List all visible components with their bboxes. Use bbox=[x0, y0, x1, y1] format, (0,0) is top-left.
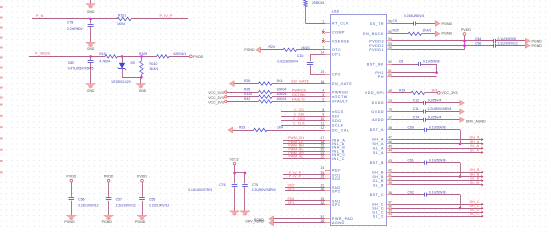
svg-text:C60: C60 bbox=[408, 126, 414, 130]
svg-text:34: 34 bbox=[388, 212, 392, 216]
svg-text:CP2: CP2 bbox=[332, 72, 341, 76]
svg-text:10K04: 10K04 bbox=[277, 88, 287, 92]
svg-text:49: 49 bbox=[388, 89, 392, 93]
svg-text:OTC: OTC bbox=[332, 48, 341, 52]
svg-text:PWRGD: PWRGD bbox=[332, 90, 349, 94]
svg-text:2.2U/100V/12: 2.2U/100V/12 bbox=[116, 204, 136, 208]
svg-text:VSENSE: VSENSE bbox=[332, 40, 350, 44]
svg-text:R23: R23 bbox=[239, 126, 245, 130]
svg-text:INL_C: INL_C bbox=[332, 157, 345, 161]
svg-text:C78: C78 bbox=[67, 21, 73, 25]
svg-text:PGND: PGND bbox=[254, 218, 264, 222]
svg-text:C80: C80 bbox=[68, 61, 74, 65]
svg-text:11: 11 bbox=[321, 122, 325, 126]
svg-text:0.1U/100V/8: 0.1U/100V/8 bbox=[498, 37, 516, 41]
svg-text:3K4: 3K4 bbox=[432, 88, 438, 92]
svg-text:C54: C54 bbox=[475, 37, 481, 41]
svg-text:1: 1 bbox=[322, 19, 324, 23]
svg-text:SL_C: SL_C bbox=[373, 214, 384, 218]
svg-text:P_N: P_N bbox=[36, 14, 44, 18]
svg-text:VCC_3V3: VCC_3V3 bbox=[208, 100, 224, 104]
svg-text:R42: R42 bbox=[244, 97, 250, 101]
svg-text:56: 56 bbox=[388, 20, 392, 24]
svg-text:15: 15 bbox=[321, 70, 325, 74]
svg-text:C8: C8 bbox=[399, 60, 403, 64]
svg-text:1K4: 1K4 bbox=[277, 126, 283, 130]
svg-text:U16: U16 bbox=[332, 10, 339, 14]
svg-text:38: 38 bbox=[388, 191, 392, 195]
svg-text:1K4/1: 1K4/1 bbox=[301, 46, 310, 50]
svg-text:GH_A: GH_A bbox=[470, 135, 480, 139]
svg-text:C75: C75 bbox=[252, 183, 258, 187]
svg-text:PGND: PGND bbox=[442, 22, 453, 26]
svg-text:VCC_3V3: VCC_3V3 bbox=[208, 96, 224, 100]
svg-text:PVDD: PVDD bbox=[137, 174, 147, 178]
svg-text:BST_A: BST_A bbox=[370, 128, 384, 132]
svg-text:SP2: SP2 bbox=[332, 189, 340, 193]
svg-text:VCC3: VCC3 bbox=[230, 158, 239, 162]
svg-text:C57: C57 bbox=[116, 198, 122, 202]
svg-text:43: 43 bbox=[388, 159, 392, 163]
svg-text:nFAULT: nFAULT bbox=[332, 100, 348, 104]
svg-text:48: 48 bbox=[388, 126, 392, 130]
svg-text:VCC_3V3: VCC_3V3 bbox=[442, 91, 458, 95]
svg-text:SP2: SP2 bbox=[287, 187, 294, 191]
svg-text:PWM_AL: PWM_AL bbox=[289, 155, 304, 159]
svg-text:47: 47 bbox=[388, 136, 392, 140]
svg-text:PGND: PGND bbox=[102, 220, 113, 224]
svg-text:C_CS: C_CS bbox=[294, 108, 304, 112]
svg-text:42: 42 bbox=[388, 168, 392, 172]
svg-text:62K04/1: 62K04/1 bbox=[174, 52, 187, 56]
svg-text:C_SDI: C_SDI bbox=[294, 112, 305, 116]
svg-text:D9: D9 bbox=[131, 61, 135, 65]
svg-text:nSCS: nSCS bbox=[332, 110, 344, 114]
svg-text:2.2U/50V/X5R/4: 2.2U/50V/X5R/4 bbox=[428, 107, 452, 111]
svg-text:SCLK: SCLK bbox=[332, 124, 344, 128]
svg-text:C56: C56 bbox=[475, 42, 481, 46]
svg-text:FAULTn: FAULTn bbox=[292, 98, 306, 102]
svg-text:GH_A: GH_A bbox=[372, 138, 384, 142]
svg-text:C12: C12 bbox=[413, 98, 419, 102]
svg-text:SL_A: SL_A bbox=[373, 151, 384, 155]
svg-text:R25: R25 bbox=[244, 88, 250, 92]
svg-text:24: 24 bbox=[321, 166, 325, 170]
svg-text:0.015U/50V/4: 0.015U/50V/4 bbox=[404, 14, 424, 18]
svg-text:PGND: PGND bbox=[64, 220, 75, 224]
svg-text:BST_BK: BST_BK bbox=[367, 62, 384, 66]
svg-text:R19: R19 bbox=[399, 88, 405, 92]
svg-text:P_VBUS: P_VBUS bbox=[35, 52, 50, 56]
svg-text:DC_CAL: DC_CAL bbox=[332, 128, 349, 132]
svg-text:SDO: SDO bbox=[332, 119, 341, 123]
svg-text:54: 54 bbox=[388, 37, 392, 41]
svg-text:AVDD: AVDD bbox=[372, 118, 384, 122]
svg-text:PVDD: PVDD bbox=[193, 55, 203, 59]
svg-text:R119: R119 bbox=[244, 92, 252, 96]
svg-text:C55: C55 bbox=[149, 198, 155, 202]
svg-text:C74: C74 bbox=[413, 115, 419, 119]
svg-text:SP1: SP1 bbox=[332, 203, 340, 207]
svg-text:R109: R109 bbox=[139, 52, 147, 56]
svg-text:1K4/1: 1K4/1 bbox=[423, 29, 432, 33]
svg-text:50: 50 bbox=[388, 73, 392, 77]
svg-text:1K4: 1K4 bbox=[277, 79, 283, 83]
svg-text:VESD03-02V: VESD03-02V bbox=[111, 80, 131, 84]
svg-text:R26: R26 bbox=[244, 79, 250, 83]
svg-text:12: 12 bbox=[321, 126, 325, 130]
svg-text:GH_B: GH_B bbox=[372, 170, 384, 174]
svg-text:PVDD1: PVDD1 bbox=[369, 48, 384, 52]
svg-text:PH: PH bbox=[378, 75, 384, 79]
svg-text:0.1U/50V/8: 0.1U/50V/8 bbox=[429, 159, 446, 163]
svg-text:44: 44 bbox=[388, 149, 392, 153]
svg-text:2.2U/100V/12: 2.2U/100V/12 bbox=[498, 42, 518, 46]
svg-text:nOCTW: nOCTW bbox=[332, 95, 348, 99]
svg-text:2.2U/100V/12: 2.2U/100V/12 bbox=[149, 204, 169, 208]
svg-text:C_CLK: C_CLK bbox=[293, 122, 305, 126]
svg-text:10K04: 10K04 bbox=[277, 92, 287, 96]
svg-text:14: 14 bbox=[321, 50, 325, 54]
svg-text:SL_B: SL_B bbox=[470, 181, 480, 185]
svg-text:0.1U/16V/X7R/4: 0.1U/16V/X7R/4 bbox=[188, 188, 212, 192]
svg-text:SDI: SDI bbox=[332, 115, 340, 119]
svg-text:PGND: PGND bbox=[532, 44, 543, 48]
svg-text:SL_C: SL_C bbox=[470, 212, 480, 216]
svg-text:PVDD3: PVDD3 bbox=[369, 39, 384, 43]
svg-text:CP1: CP1 bbox=[332, 53, 341, 57]
svg-text:SO2: SO2 bbox=[332, 177, 341, 181]
svg-text:13: 13 bbox=[388, 108, 392, 112]
svg-text:4.7K04: 4.7K04 bbox=[99, 60, 110, 64]
svg-text:PVDD: PVDD bbox=[461, 28, 471, 32]
svg-text:52: 52 bbox=[388, 60, 392, 64]
svg-text:0.022U/50V/4: 0.022U/50V/4 bbox=[278, 59, 298, 63]
svg-text:2.2U/100V/12: 2.2U/100V/12 bbox=[78, 204, 98, 208]
svg-text:PGND: PGND bbox=[135, 220, 146, 224]
svg-text:GND: GND bbox=[139, 89, 147, 93]
svg-text:PWRGD: PWRGD bbox=[292, 88, 307, 92]
svg-text:P_IV_P: P_IV_P bbox=[289, 175, 302, 179]
svg-text:0.1U/50V/8: 0.1U/50V/8 bbox=[429, 190, 446, 194]
svg-text:0.1U/50V/8: 0.1U/50V/8 bbox=[423, 60, 440, 64]
svg-text:55: 55 bbox=[388, 30, 392, 34]
svg-text:AGND: AGND bbox=[332, 221, 345, 225]
svg-text:COMP: COMP bbox=[332, 31, 345, 35]
svg-text:1U/25V/4: 1U/25V/4 bbox=[428, 98, 442, 102]
svg-text:PGND: PGND bbox=[244, 48, 255, 52]
svg-text:C11: C11 bbox=[413, 107, 419, 111]
svg-text:1K04: 1K04 bbox=[117, 22, 125, 26]
svg-text:SL_B: SL_B bbox=[373, 183, 384, 187]
svg-text:C61: C61 bbox=[408, 159, 414, 163]
svg-text:P_IV_P: P_IV_P bbox=[160, 14, 173, 18]
svg-text:29: 29 bbox=[388, 46, 392, 50]
svg-text:39: 39 bbox=[388, 181, 392, 185]
svg-text:10K04: 10K04 bbox=[277, 97, 287, 101]
svg-text:EN_GATE: EN_GATE bbox=[332, 82, 352, 86]
svg-text:23: 23 bbox=[388, 99, 392, 103]
svg-text:2.2U/50V/X5R/4: 2.2U/50V/X5R/4 bbox=[252, 188, 276, 192]
svg-text:R111: R111 bbox=[99, 52, 107, 56]
svg-text:6: 6 bbox=[322, 98, 324, 102]
svg-text:27: 27 bbox=[388, 116, 392, 120]
svg-text:SL_A: SL_A bbox=[470, 149, 480, 153]
svg-text:C10: C10 bbox=[297, 54, 303, 58]
svg-text:R110: R110 bbox=[150, 62, 158, 66]
svg-text:GND: GND bbox=[87, 47, 95, 51]
svg-text:C62: C62 bbox=[408, 190, 414, 194]
svg-text:0.47U/25V/X5R/5: 0.47U/25V/X5R/5 bbox=[68, 67, 94, 71]
svg-text:C9: C9 bbox=[393, 19, 397, 23]
svg-text:GND: GND bbox=[87, 10, 95, 14]
svg-text:3K4/1: 3K4/1 bbox=[150, 67, 159, 71]
svg-text:DRV_AGND: DRV_AGND bbox=[466, 119, 486, 123]
svg-text:205K4/1: 205K4/1 bbox=[312, 1, 325, 5]
svg-text:OCTWn: OCTWn bbox=[292, 93, 305, 97]
svg-text:9: 9 bbox=[322, 112, 324, 116]
svg-text:BST_C: BST_C bbox=[370, 193, 384, 197]
svg-text:RT_CLK: RT_CLK bbox=[332, 22, 349, 26]
svg-text:C76: C76 bbox=[219, 183, 225, 187]
svg-text:PGND: PGND bbox=[442, 32, 453, 36]
svg-text:PGND: PGND bbox=[532, 39, 543, 43]
svg-text:PVDD: PVDD bbox=[104, 174, 114, 178]
svg-text:VCC_3V3: VCC_3V3 bbox=[208, 91, 224, 95]
svg-text:R101: R101 bbox=[118, 14, 126, 18]
svg-text:R20: R20 bbox=[393, 29, 399, 33]
svg-text:2.2nF/50V: 2.2nF/50V bbox=[67, 27, 83, 31]
svg-text:PVDD: PVDD bbox=[66, 174, 76, 178]
svg-text:4: 4 bbox=[322, 88, 324, 92]
svg-text:GVDD: GVDD bbox=[371, 110, 384, 114]
svg-text:REF: REF bbox=[332, 168, 341, 172]
svg-text:BST_B: BST_B bbox=[370, 161, 384, 165]
svg-text:SS_TR: SS_TR bbox=[370, 22, 384, 26]
svg-text:0.1U/50V/8: 0.1U/50V/8 bbox=[429, 126, 446, 130]
svg-text:EN_BUCK: EN_BUCK bbox=[363, 32, 384, 36]
svg-text:C_SDO: C_SDO bbox=[293, 117, 306, 121]
svg-text:1U/25V/4: 1U/25V/4 bbox=[428, 115, 442, 119]
svg-text:DVDD: DVDD bbox=[372, 101, 384, 105]
svg-text:EN_GATE: EN_GATE bbox=[292, 80, 310, 84]
svg-text:VDD_SPI: VDD_SPI bbox=[365, 91, 384, 95]
svg-text:GH_B: GH_B bbox=[470, 168, 480, 172]
svg-text:GND: GND bbox=[87, 89, 95, 93]
svg-text:SP1: SP1 bbox=[287, 201, 294, 205]
svg-text:R24: R24 bbox=[269, 45, 275, 49]
svg-text:C56: C56 bbox=[78, 198, 84, 202]
